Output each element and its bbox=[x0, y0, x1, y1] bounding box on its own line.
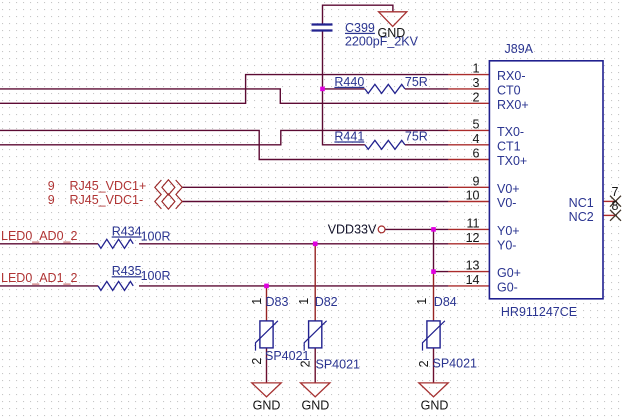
wire D84 to GND bbox=[433, 348, 435, 383]
svg-text:4: 4 bbox=[473, 132, 480, 146]
wire W1 RX pair upper (net to pin 2 RX0+) bbox=[0, 89, 448, 103]
junction at VDD33V / pin 11 bbox=[431, 227, 436, 232]
svg-text:GND: GND bbox=[421, 398, 449, 412]
resistor R435 bbox=[98, 281, 133, 290]
junction at R440 input bbox=[320, 87, 325, 92]
no-connect X pin 7 bbox=[610, 196, 621, 207]
resistor R441 bbox=[365, 140, 405, 149]
svg-text:100R: 100R bbox=[141, 269, 171, 283]
svg-text:12: 12 bbox=[466, 231, 480, 245]
wire R435 right to pin 14 bbox=[139, 285, 448, 287]
svg-text:2: 2 bbox=[250, 358, 264, 365]
svg-text:1: 1 bbox=[415, 298, 429, 305]
ground symbol D82 bbox=[301, 383, 330, 397]
pin stub 9 bbox=[448, 186, 489, 188]
svg-text:2: 2 bbox=[417, 360, 431, 367]
wire D83 to GND bbox=[266, 348, 268, 383]
svg-text:3: 3 bbox=[473, 76, 480, 90]
svg-text:CT1: CT1 bbox=[497, 139, 521, 153]
svg-text:V0-: V0- bbox=[497, 196, 516, 210]
wire VDD33V vertical to pin 13 junction bbox=[434, 229, 449, 271]
svg-text:9: 9 bbox=[473, 174, 480, 188]
wire D83 branch vertical bbox=[266, 286, 268, 321]
svg-text:HR911247CE: HR911247CE bbox=[501, 305, 577, 319]
junction at D83 branch bbox=[264, 284, 269, 289]
wire capacitor bottom to R441 bbox=[323, 31, 365, 145]
pin stub 1 bbox=[448, 74, 489, 76]
svg-text:GND: GND bbox=[253, 398, 281, 412]
svg-text:TX0+: TX0+ bbox=[497, 154, 527, 168]
svg-text:D84: D84 bbox=[434, 295, 457, 309]
svg-text:9: 9 bbox=[48, 179, 55, 193]
svg-text:1: 1 bbox=[297, 298, 311, 305]
pin stub 14 bbox=[448, 285, 489, 287]
svg-text:8: 8 bbox=[612, 199, 619, 213]
resistor R440 bbox=[365, 84, 405, 93]
svg-text:RJ45_VDC1+: RJ45_VDC1+ bbox=[70, 179, 147, 193]
svg-text:SP4021: SP4021 bbox=[433, 357, 478, 371]
svg-text:75R: 75R bbox=[405, 75, 428, 89]
svg-text:D83: D83 bbox=[266, 295, 289, 309]
svg-text:D82: D82 bbox=[315, 295, 338, 309]
pin stub 2 bbox=[448, 102, 489, 104]
svg-text:10: 10 bbox=[466, 189, 480, 203]
svg-text:VDD33V: VDD33V bbox=[328, 222, 377, 236]
no-connect X pin 8 bbox=[610, 210, 621, 221]
svg-text:NC2: NC2 bbox=[569, 210, 594, 224]
svg-text:6: 6 bbox=[473, 147, 480, 161]
wire D82 to GND bbox=[314, 348, 316, 383]
svg-text:C399: C399 bbox=[345, 21, 375, 35]
resistor R434 bbox=[98, 239, 133, 248]
wire R441 right to pin 4 bbox=[405, 144, 449, 146]
svg-text:100R: 100R bbox=[141, 229, 171, 243]
pin stub 12 bbox=[448, 243, 489, 245]
svg-text:SP4021: SP4021 bbox=[316, 358, 361, 372]
svg-text:LED0_AD1_2: LED0_AD1_2 bbox=[1, 271, 77, 285]
svg-text:RX0-: RX0- bbox=[497, 69, 525, 83]
wire R440 left bbox=[323, 88, 365, 90]
svg-text:V0+: V0+ bbox=[497, 182, 520, 196]
svg-text:13: 13 bbox=[466, 259, 480, 273]
wire RJ45_VDC1+ to pin 9 bbox=[182, 186, 448, 188]
svg-text:14: 14 bbox=[466, 273, 480, 287]
wire R440 right to pin 3 bbox=[405, 88, 449, 90]
ground symbol D84 bbox=[419, 383, 448, 397]
connector J89A body bbox=[489, 61, 603, 299]
wire W3 TX pair upper (net to pin 6 TX0+) bbox=[0, 130, 448, 159]
svg-text:G0-: G0- bbox=[497, 280, 518, 294]
svg-text:NC1: NC1 bbox=[569, 196, 594, 210]
wire W4 TX pair lower (net to pin 5 TX0-) bbox=[0, 130, 448, 144]
ground symbol top bbox=[379, 12, 407, 27]
pin stub 5 bbox=[448, 129, 489, 131]
junction at D82 branch bbox=[313, 242, 318, 247]
capacitor C399 bbox=[312, 25, 333, 31]
ground symbol D83 bbox=[252, 383, 281, 397]
svg-text:R434: R434 bbox=[112, 224, 142, 238]
svg-text:GND: GND bbox=[378, 26, 406, 40]
varistor D82 bbox=[304, 321, 326, 351]
wire RJ45_VDC1- to pin 10 bbox=[182, 201, 448, 203]
svg-text:J89A: J89A bbox=[505, 42, 534, 56]
off-sheet connector RJ45_VDC1- bbox=[155, 194, 182, 209]
pin stub 6 bbox=[448, 159, 489, 161]
wire W2 RX pair lower (net to pin 1 RX0-) bbox=[0, 75, 448, 104]
svg-text:RX0+: RX0+ bbox=[497, 98, 529, 112]
svg-text:RJ45_VDC1-: RJ45_VDC1- bbox=[70, 193, 144, 207]
wire R434 left bbox=[0, 243, 98, 245]
svg-text:7: 7 bbox=[612, 185, 619, 199]
pin stub 8 NC2 bbox=[603, 214, 617, 216]
pin stub 3 bbox=[448, 88, 489, 90]
svg-text:Y0-: Y0- bbox=[497, 238, 516, 252]
off-sheet connector RJ45_VDC1+ bbox=[155, 180, 182, 195]
svg-text:2: 2 bbox=[473, 90, 480, 104]
svg-text:75R: 75R bbox=[405, 129, 428, 143]
wire R435 left bbox=[0, 285, 98, 287]
varistor D84 bbox=[423, 321, 445, 351]
svg-text:1: 1 bbox=[250, 298, 264, 305]
svg-text:5: 5 bbox=[473, 117, 480, 131]
power port circle bbox=[378, 226, 385, 233]
svg-text:LED0_AD0_2: LED0_AD0_2 bbox=[1, 229, 77, 243]
wire D82 branch vertical bbox=[314, 244, 316, 321]
wire R434 right to pin 12 bbox=[139, 243, 448, 245]
pin stub 7 NC1 bbox=[603, 200, 617, 202]
svg-text:R441: R441 bbox=[334, 129, 364, 143]
svg-text:G0+: G0+ bbox=[497, 266, 521, 280]
svg-text:11: 11 bbox=[467, 216, 480, 230]
svg-text:TX0-: TX0- bbox=[497, 125, 524, 139]
pin stub 10 bbox=[448, 201, 489, 203]
wire VDD33V to pin 11 bbox=[385, 228, 448, 230]
svg-text:GND: GND bbox=[302, 398, 330, 412]
varistor D83 bbox=[256, 321, 278, 351]
svg-text:1: 1 bbox=[473, 62, 480, 76]
svg-text:9: 9 bbox=[48, 193, 55, 207]
pin stub 4 bbox=[448, 144, 489, 146]
svg-text:CT0: CT0 bbox=[497, 83, 521, 97]
svg-text:Y0+: Y0+ bbox=[497, 224, 520, 238]
svg-text:R435: R435 bbox=[112, 264, 142, 278]
svg-text:R440: R440 bbox=[334, 75, 364, 89]
wire capacitor top to GND bbox=[323, 5, 393, 24]
pin stub 11 bbox=[448, 228, 489, 230]
wire D84 branch vertical bbox=[433, 272, 435, 321]
junction at pin 13 branch bbox=[431, 269, 436, 274]
svg-text:2: 2 bbox=[299, 360, 313, 367]
pin stub 13 bbox=[448, 271, 489, 273]
